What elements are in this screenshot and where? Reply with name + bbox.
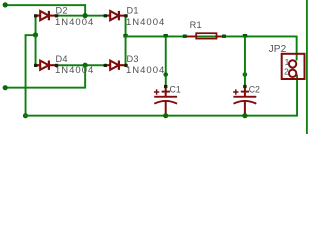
- connector JP2: [282, 54, 305, 79]
- node R1 pin2 attach: [222, 35, 226, 38]
- svg-text:1N4004: 1N4004: [126, 17, 165, 28]
- node junction rail left: [123, 34, 127, 38]
- wire D2 anode drop: [35, 16, 37, 36]
- wire AC2 horizontal: [4, 87, 86, 89]
- diode D1: [106, 11, 127, 20]
- node junction C1 tap: [164, 34, 168, 38]
- wire jog horizontal y35: [25, 34, 37, 36]
- svg-text:2: 2: [284, 67, 289, 77]
- node D3 anode attach: [104, 64, 107, 67]
- svg-text:1N4004: 1N4004: [126, 65, 165, 76]
- wire C2 drop: [244, 37, 246, 87]
- node D2 cathode attach: [55, 14, 58, 17]
- wire row2 D4-D3: [56, 64, 105, 66]
- svg-text:R1: R1: [190, 20, 202, 30]
- svg-text:D3: D3: [127, 54, 139, 64]
- svg-text:1N4004: 1N4004: [55, 65, 94, 76]
- diode D3: [106, 61, 127, 70]
- svg-text:D2: D2: [56, 5, 68, 15]
- node R1 pin1 attach: [183, 35, 187, 38]
- node D4 cathode attach: [55, 64, 58, 67]
- wire top AC1 horizontal: [4, 4, 86, 6]
- svg-text:D4: D4: [56, 54, 68, 64]
- node C1 top attach: [164, 85, 167, 88]
- node AC1 dot left: [3, 2, 8, 7]
- wire row1 D2-D1: [56, 15, 105, 17]
- node D2 anode attach: [34, 14, 37, 17]
- capacitor C1: [154, 87, 177, 114]
- wire D1-D3 cathode vertical: [125, 15, 127, 66]
- resistor R1: [186, 33, 224, 38]
- node junction row1 x85: [83, 13, 88, 18]
- node junction jog: [33, 32, 38, 37]
- wire C1 drop: [165, 37, 167, 87]
- node C1 pin-end dot: [163, 72, 168, 77]
- capacitor C2: [233, 87, 256, 114]
- node C2 pin-end dot: [243, 72, 248, 77]
- wire top AC1 vertical drop: [84, 4, 86, 16]
- wire rail DC+ y36: [125, 36, 298, 38]
- node AC2 dot left: [3, 85, 8, 90]
- wire D4 anode riser: [35, 35, 37, 66]
- wire JP2 pin2 drop: [296, 75, 298, 116]
- node D4 anode attach: [34, 64, 37, 67]
- wire AC2 vertical: [84, 65, 86, 88]
- wire left DC- vertical: [25, 35, 27, 117]
- svg-text:C1: C1: [170, 85, 181, 95]
- wire rail right drop to JP2 pin1: [296, 36, 298, 61]
- frame border right: [306, 0, 308, 134]
- node C2 top attach: [243, 85, 246, 88]
- diode D4: [36, 61, 56, 70]
- node D1 cathode attach: [124, 14, 127, 17]
- node corner bottom-left dot: [23, 113, 28, 118]
- node D1 anode attach: [104, 14, 107, 17]
- svg-text:1: 1: [285, 57, 290, 67]
- node junction C1 bottom: [163, 113, 168, 118]
- node D3 cathode attach: [124, 64, 127, 67]
- node junction C2 tap: [243, 34, 247, 38]
- svg-text:1N4004: 1N4004: [55, 17, 94, 28]
- diode D2: [36, 11, 56, 20]
- svg-text:D1: D1: [127, 5, 139, 15]
- svg-text:C2: C2: [249, 85, 260, 95]
- node junction C2 bottom: [242, 113, 247, 118]
- svg-text:JP2: JP2: [269, 44, 287, 55]
- node junction row2 x85: [83, 63, 88, 68]
- wire bottom rail: [25, 115, 298, 117]
